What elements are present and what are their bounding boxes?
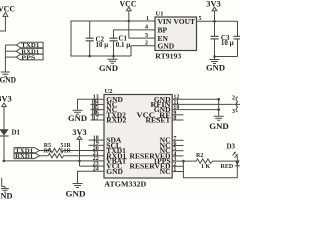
svg-text:VOUT: VOUT [173,17,195,26]
pin 16 stub [91,110,105,116]
svg-text:GND: GND [0,192,13,201]
connector pad 2 [232,96,238,102]
node VOUT junction [213,20,216,23]
svg-text:8: 8 [173,116,176,122]
pin 10 wire [172,105,219,111]
ground (battery, clipped) [0,186,13,200]
svg-text:GND: GND [0,76,16,85]
svg-text:R6: R6 [44,148,51,154]
pin 5 stub [172,146,183,152]
svg-text:PPS: PPS [21,55,36,61]
power VCC (above U1) [120,0,137,11]
node 1PPS junction [182,160,185,163]
pin 17 stub [91,115,105,121]
pin 2 stub [172,162,183,168]
svg-text:D3: D3 [227,143,236,151]
svg-text:1: 1 [146,16,149,22]
svg-text:GND: GND [68,114,87,123]
wire to TXD1 flag [5,44,16,46]
wire VCC vertical to EN [128,11,130,38]
ground (U1 input) [99,56,118,73]
svg-text:RESET: RESET [146,116,171,125]
pin names U2 right top [137,95,172,125]
pin 23 wire [80,161,105,167]
wire GND pin2 [131,46,155,56]
IC U2 ATGM332D [104,88,172,189]
wire D1 to VBAT rail [3,136,5,161]
node C1 rail junction [112,55,115,58]
ground (antenna) [209,110,229,131]
ground (U2 pin13) [68,99,87,123]
node C3 rail junction [213,55,216,58]
pin 24 wire [78,167,105,183]
svg-text:GND: GND [206,64,225,73]
svg-text:VIN: VIN [158,17,172,26]
net label RXD1 (module side) [14,153,40,160]
connector pad 3 [232,107,238,115]
pin 15 stub [91,105,105,111]
svg-text:3: 3 [232,109,235,115]
node ant gnd bottom [217,108,220,111]
svg-text:GND: GND [99,64,118,73]
pin 3 wire 1PPS [172,157,196,163]
svg-text:VCC: VCC [0,5,15,14]
net label PPS [16,54,43,61]
pin 11 wire RFIN [172,100,240,106]
svg-text:GND: GND [106,167,123,176]
svg-text:10 µ: 10 µ [96,41,109,49]
wire VIN top rail [71,21,155,56]
node D1 rail junction [3,160,6,163]
svg-text:GND: GND [209,122,229,131]
svg-text:1: 1 [173,167,176,173]
wire tie pin16 to GND line [94,99,96,115]
svg-text:24: 24 [93,167,99,173]
svg-text:3V3: 3V3 [0,94,12,103]
wire to RXD1 flag [5,50,16,52]
svg-text:GND: GND [66,190,86,199]
svg-text:ATGM332D: ATGM332D [104,180,147,189]
svg-text:2: 2 [145,41,148,47]
node VBAT junction [78,160,81,163]
svg-text:51R: 51R [61,148,72,154]
svg-text:2: 2 [232,96,235,102]
node ant gnd top [217,98,220,101]
ground (connector) [0,72,16,85]
svg-text:NC: NC [160,167,171,176]
LED D3 (clipped at edge) [227,143,240,179]
svg-text:D1: D1 [12,129,21,137]
wire 3V3 to D1 [3,107,5,130]
svg-text:RXD2: RXD2 [106,116,126,125]
pin 14 stub [91,100,105,106]
wire antenna gnd vertical [218,99,220,109]
pin 20 wire [72,146,104,152]
ground (U2 pin24) [66,184,86,199]
power 3V3 (diode branch) [0,94,12,106]
capacitor C4 (clipped at edge) [234,21,241,56]
wire output bottom rail [215,56,238,58]
diode D1 [0,129,21,137]
resistor R2 [196,153,237,170]
pin 6 stub [172,141,183,147]
pin 12 wire + number [172,95,219,101]
svg-text:RED: RED [221,164,234,170]
wire to PPS flag [5,56,16,58]
pin 8 stub [172,116,183,122]
op-amp U1 RT9193 [155,10,197,60]
pin 4 stub [172,151,183,157]
wire 3V3 down [214,11,216,21]
resistor R6 [40,148,73,158]
capacitor C3 [211,21,234,56]
pin 7 stub [172,136,183,142]
capacitor C1 [110,30,131,56]
wire VOUT pin5 [197,20,238,22]
pin 18 stub [89,135,105,141]
connector pad 1 [236,102,238,107]
pin 1 stub [172,167,183,173]
pin names U2 left top [106,95,126,125]
svg-text:GND: GND [158,42,175,51]
capacitor C2 [86,21,109,56]
power VCC (top-left) [0,5,15,17]
node C2 rail junction [88,55,91,58]
wire battery stub (clipped) [2,178,5,186]
pin 21 wire [72,151,104,157]
svg-text:17: 17 [93,115,99,121]
svg-text:3V3: 3V3 [206,0,221,9]
resistor R5 [40,143,73,153]
wire EN pin3 [129,37,155,39]
pin names U2 right bottom [130,136,172,176]
svg-text:0.1 µ: 0.1 µ [116,41,131,49]
net label RXD1 [16,48,43,55]
wire connector bus vertical [4,45,6,72]
pin 19 stub [89,141,105,147]
svg-text:RT9193: RT9193 [155,52,181,61]
svg-text:1 K: 1 K [201,164,211,170]
wire VCC to left edge [0,16,5,31]
svg-text:RXD1: RXD1 [15,154,33,160]
svg-text:3: 3 [145,33,148,39]
pin 13 wire + numbers left top [78,95,105,101]
pin 22 wire VBAT rail [4,156,104,162]
net label TXD1 (module side) [14,148,40,155]
svg-text:R2: R2 [196,153,203,159]
power 3V3 (VBAT) [72,128,87,139]
node VIN junction [128,20,131,23]
pin names U2 left bottom [106,136,126,176]
wire 1PPS loop bottom [183,161,237,178]
pin 9 stub [172,110,183,116]
wire 3V3 down to VCC pin [79,139,81,166]
power 3V3 (above C3) [206,0,221,11]
wire tie pin17 to GND line [92,99,94,120]
svg-text:4: 4 [145,25,148,31]
svg-text:10 µ: 10 µ [221,39,234,47]
net label TXD1 [16,42,43,49]
ground (U1 output) [206,57,225,73]
wire BP pin4 [114,29,156,31]
